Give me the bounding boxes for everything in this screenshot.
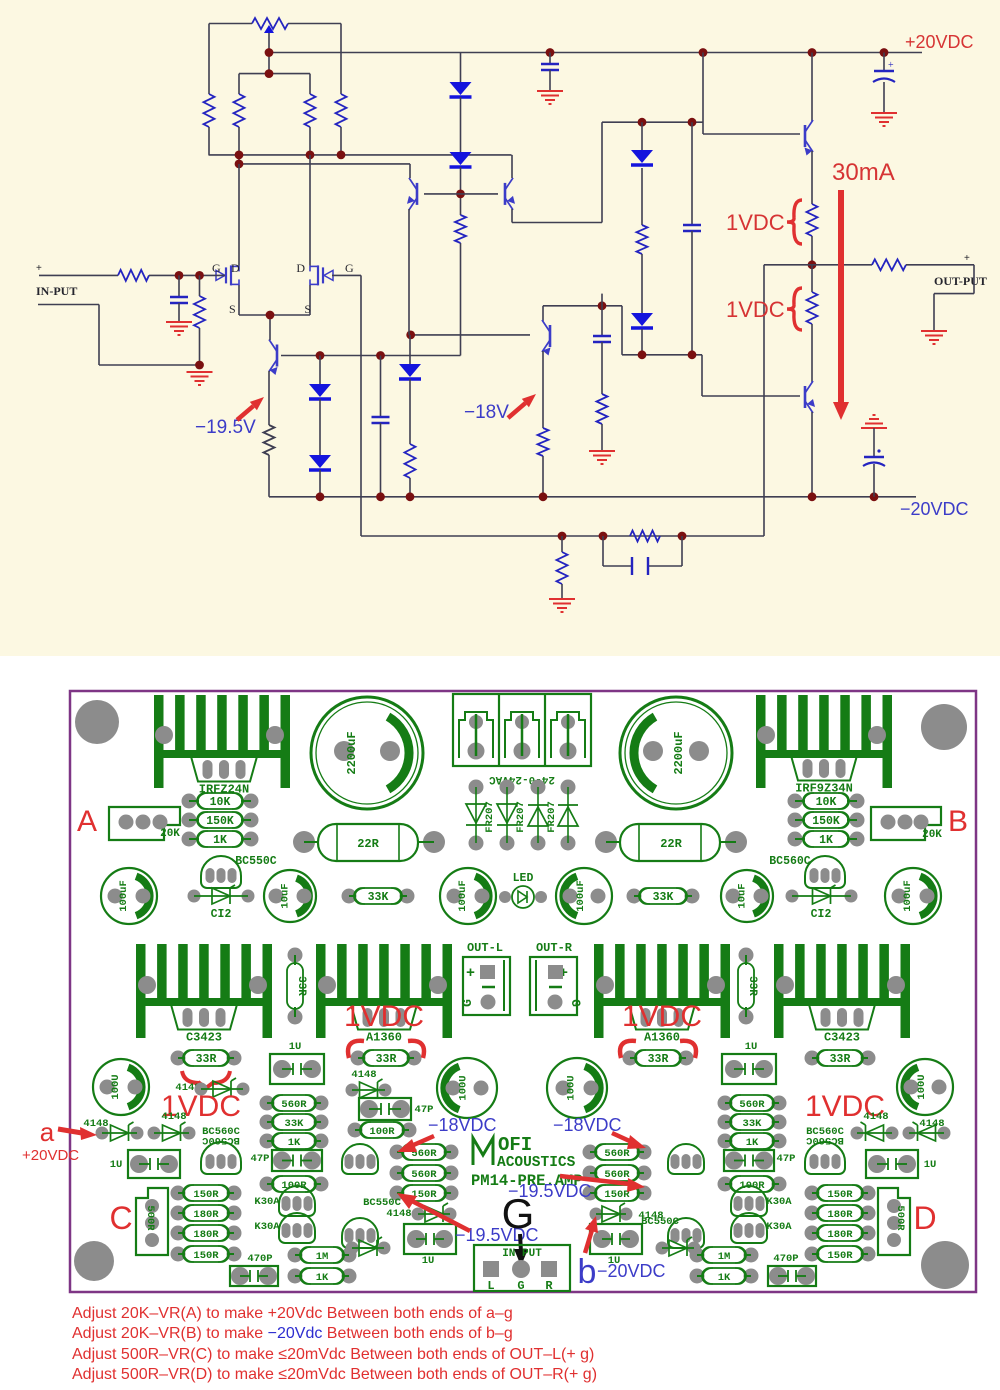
HS6 pads (776, 976, 794, 994)
node in2 (195, 271, 204, 280)
svg-text:a: a (40, 1117, 55, 1147)
+20VDC rail (269, 52, 922, 54)
svg-text:100uF: 100uF (575, 880, 587, 912)
mount hole TL (75, 700, 119, 744)
svg-text:33R: 33R (196, 1053, 217, 1066)
svg-text:b: b (578, 1253, 597, 1291)
svg-text:1M: 1M (718, 1251, 731, 1263)
svg-text:22R: 22R (660, 837, 682, 851)
resistor 33R a (171, 1051, 186, 1066)
transistor dome bR (668, 1144, 704, 1174)
resistor R9 (405, 444, 416, 478)
svg-text:180R: 180R (827, 1209, 853, 1221)
svg-text:24-0-24VAC: 24-0-24VAC (489, 773, 555, 785)
svg-text:33K: 33K (653, 891, 674, 904)
wire mirror (602, 121, 703, 123)
capacitor 100uF a (101, 868, 157, 924)
capacitor 47P f4 (724, 1150, 774, 1171)
svg-text:470P: 470P (773, 1253, 798, 1265)
resistor 560R i1 (390, 1145, 405, 1160)
node rail3 (699, 48, 708, 57)
svg-text:33R: 33R (376, 1053, 397, 1066)
resistor 560R f1 (718, 1096, 733, 1111)
capacitor 2200uF right (620, 697, 732, 809)
ground G1 (166, 322, 192, 335)
svg-text:47P: 47P (777, 1153, 796, 1165)
arrow -19.5VDC L (410, 1200, 470, 1231)
node v3 (598, 301, 607, 310)
red hooks b (348, 1041, 424, 1058)
node b4 (235, 160, 244, 169)
HS4 pads (318, 976, 336, 994)
svg-text:L: L (487, 1279, 494, 1293)
svg-text:G: G (568, 999, 583, 1007)
svg-text:1K: 1K (718, 1272, 731, 1284)
svg-text:1VDC: 1VDC (622, 1000, 702, 1033)
resistor R11 (538, 428, 549, 456)
transistor BC560C L2 (201, 1142, 241, 1174)
svg-text:180R: 180R (193, 1209, 219, 1221)
red arrow a (58, 1129, 82, 1133)
svg-text:S: S (229, 302, 236, 316)
capacitor 10uF R (721, 870, 773, 922)
node vb1 (316, 351, 325, 360)
svg-text:30mA: 30mA (832, 159, 895, 186)
wire bias right (702, 53, 704, 135)
ground G4 (871, 113, 897, 126)
capacitor 2200uF left (311, 697, 423, 809)
svg-text:2200uF: 2200uF (345, 731, 359, 774)
capacitor 100U b (437, 1058, 497, 1118)
svg-text:C: C (109, 1200, 132, 1236)
diode FR207 d (561, 780, 576, 795)
capacitor C4 (691, 122, 693, 224)
arrow -19.5VDC R (560, 1176, 630, 1184)
capacitor 10uF L (264, 870, 316, 922)
resistor R15 (264, 425, 275, 455)
resistor 1M R (690, 1248, 705, 1263)
svg-text:560R: 560R (604, 1148, 630, 1160)
node b3 (337, 151, 346, 160)
-20VDC rail (269, 496, 916, 498)
ground G6 (549, 599, 575, 612)
node v1 (638, 350, 647, 359)
resistor 1K R (788, 832, 803, 847)
resistor 1K L (182, 832, 197, 847)
svg-text:100uF: 100uF (902, 880, 914, 912)
diode 4148 a1 (195, 1083, 208, 1096)
svg-text:33R: 33R (746, 976, 758, 996)
mosfet M2 (324, 270, 333, 280)
mosfet M1 (216, 270, 225, 280)
heatsink HS4 (316, 944, 326, 1038)
resistor 560R j1 (583, 1145, 598, 1160)
svg-text:C3423: C3423 (186, 1031, 222, 1045)
resistor 560R j2 (583, 1166, 598, 1181)
svg-text:1K: 1K (819, 834, 833, 847)
resistor 1K f3 (718, 1134, 733, 1149)
svg-text:BC560C: BC560C (805, 1134, 844, 1146)
wire top (209, 23, 252, 25)
svg-text:500R: 500R (894, 1205, 906, 1231)
HS5 pads (596, 976, 614, 994)
capacitor C3 (883, 53, 885, 72)
svg-text:2200uF: 2200uF (672, 731, 686, 774)
resistor 560R i2 (390, 1166, 405, 1181)
svg-text:−20VDC: −20VDC (900, 499, 969, 519)
capacitor 100U d (897, 1059, 953, 1115)
svg-text:10K: 10K (210, 796, 231, 809)
capacitor C8 (861, 415, 887, 428)
transistor Q5 (811, 53, 813, 122)
arrow G black (520, 1234, 521, 1252)
svg-text:IRFZ24N: IRFZ24N (199, 783, 249, 797)
node S (266, 311, 275, 320)
arrow 30mA (838, 190, 844, 402)
capacitor C2 (549, 53, 551, 65)
svg-text:4148: 4148 (386, 1208, 411, 1220)
wire sources (239, 314, 310, 316)
heatsink HS3 (136, 944, 146, 1038)
svg-text:FR207: FR207 (546, 801, 558, 833)
diode 4148 bL3 (346, 1242, 359, 1255)
PCB board outline (70, 691, 976, 1292)
svg-text:1VDC: 1VDC (726, 297, 785, 322)
node n1 (316, 492, 325, 501)
resistor 150K R (788, 813, 803, 828)
node bias (265, 69, 274, 78)
node f2 (599, 532, 608, 541)
diode D1 (460, 53, 462, 83)
svg-text:10uF: 10uF (280, 883, 292, 908)
svg-text:20K: 20K (160, 828, 180, 840)
svg-text:G: G (212, 261, 221, 275)
svg-text:180R: 180R (827, 1229, 853, 1241)
capacitor 100uF d (885, 868, 941, 924)
terminal OUT-L (463, 957, 510, 1015)
wire bus1 (209, 154, 512, 156)
resistor 33K e2 (260, 1115, 275, 1130)
svg-text:560R: 560R (281, 1099, 307, 1111)
transistor C3423 R (809, 1005, 875, 1030)
resistor R14 (872, 259, 906, 270)
diode D5 (409, 335, 411, 364)
capacitor 1U bR (590, 1224, 642, 1254)
terminal IN-PUT (474, 1245, 570, 1291)
resistor R4c (340, 24, 342, 95)
svg-text:−19.5V: −19.5V (195, 417, 256, 438)
svg-text:100U: 100U (458, 1075, 470, 1100)
svg-text:33K: 33K (368, 891, 389, 904)
svg-text:150R: 150R (411, 1189, 437, 1201)
resistor R12 (630, 531, 660, 542)
wire gate bias (239, 73, 310, 75)
transistor BC560C R2 (805, 1142, 845, 1174)
diode 4148 r3 (903, 1127, 916, 1140)
svg-text:33K: 33K (743, 1118, 763, 1130)
svg-text:100uF: 100uF (457, 880, 469, 912)
wire vas top (543, 305, 622, 307)
resistor R4 (238, 74, 240, 94)
resistor 1K R2 (690, 1269, 705, 1284)
resistor 33R c (623, 1051, 638, 1066)
mount hole BL (74, 1241, 114, 1281)
svg-text:+: + (466, 965, 475, 982)
capacitor 1U bL (404, 1224, 456, 1254)
resistor 33K f2 (718, 1115, 733, 1130)
resistor 180R h2 (805, 1206, 820, 1221)
svg-text:D: D (913, 1200, 936, 1236)
svg-text:C3423: C3423 (824, 1031, 860, 1045)
HS1 pads (155, 726, 173, 744)
resistor 10K L (182, 794, 197, 809)
svg-text:10uF: 10uF (737, 883, 749, 908)
resistor 180R g2 (171, 1206, 186, 1221)
transistor Q1 (276, 345, 279, 367)
resistor R13 (561, 536, 563, 552)
resistor 22R L (293, 831, 315, 853)
pot 20K A (109, 807, 180, 840)
heatsink HS6 (774, 944, 784, 1038)
svg-text:1K: 1K (746, 1137, 759, 1149)
svg-text:22R: 22R (357, 837, 379, 851)
mount hole TR (921, 704, 967, 750)
transistor Q4 (542, 306, 544, 321)
diode CI2 R (786, 890, 799, 903)
transistor A1360 R (629, 1005, 695, 1030)
resistor 33R mid R (739, 948, 754, 963)
svg-text:IN PUT: IN PUT (502, 1248, 542, 1260)
resistor R8 (811, 265, 813, 292)
transistor IRF9Z34N (791, 756, 857, 781)
wire vbias (460, 243, 462, 356)
node rail5 (880, 48, 889, 57)
node vb2 (376, 351, 385, 360)
node b2 (306, 151, 315, 160)
svg-text:+: + (964, 253, 970, 264)
svg-text:OUT-PUT: OUT-PUT (934, 274, 987, 288)
svg-text:K30A: K30A (254, 1196, 280, 1208)
svg-text:−18VDC: −18VDC (553, 1115, 622, 1135)
capacitor 100U a (93, 1059, 149, 1115)
wire input low (38, 304, 99, 306)
node n6 (870, 492, 879, 501)
transistor IRFZ24N (191, 757, 257, 782)
terminal 24-0-24VAC (453, 694, 591, 766)
capacitor 47P b (359, 1098, 411, 1120)
resistor 1K e3 (260, 1134, 275, 1149)
svg-text:33R: 33R (830, 1053, 851, 1066)
wire outgnd (973, 265, 975, 294)
svg-text:1U: 1U (289, 1041, 302, 1053)
svg-text:1U: 1U (110, 1159, 123, 1171)
resistor R5 (460, 194, 462, 215)
wire fbline (361, 535, 764, 537)
wire q4base (411, 334, 530, 336)
node f3 (678, 532, 687, 541)
diode 4148 r2 (851, 1127, 864, 1140)
resistor R7 (807, 204, 818, 236)
capacitor C7 loop (602, 536, 604, 566)
resistor R4b (309, 74, 311, 94)
resistor 1K L2 (288, 1269, 303, 1284)
wire q6base (702, 395, 800, 397)
trimmer VR1 (252, 18, 288, 29)
svg-text:S: S (304, 302, 311, 316)
diode CI2 L (188, 890, 201, 903)
ground G7 (921, 331, 947, 344)
svg-text:+: + (36, 263, 42, 274)
transistor dome bR2 (668, 1218, 704, 1248)
node q4b (406, 331, 415, 340)
resistor R1 (118, 270, 149, 281)
node n3 (406, 492, 415, 501)
resistor 180R h3 (805, 1226, 820, 1241)
svg-text:150R: 150R (193, 1189, 219, 1201)
resistor R2 (199, 275, 201, 296)
svg-text:OFI: OFI (498, 1134, 532, 1156)
node rail2 (546, 48, 555, 57)
svg-text:10K: 10K (816, 796, 837, 809)
red hooks c (620, 1041, 696, 1058)
heatsink HS5 (594, 944, 604, 1038)
node rail4 (808, 48, 817, 57)
svg-text:LED: LED (513, 872, 534, 885)
wire m2 gate (332, 274, 361, 276)
svg-text:−18VDC: −18VDC (428, 1115, 497, 1135)
node n4 (539, 492, 548, 501)
diode D2 (450, 152, 472, 165)
resistor 150R j3 (583, 1186, 598, 1201)
HS3 pads (138, 976, 156, 994)
svg-text:−18V: −18V (464, 402, 509, 423)
capacitor 100uF c (556, 868, 612, 924)
brace a (787, 200, 802, 244)
resistor 150R h4 (805, 1247, 820, 1262)
svg-text:470P: 470P (247, 1253, 272, 1265)
svg-text:20K: 20K (922, 829, 942, 841)
node in3 (195, 361, 204, 370)
node out (808, 260, 817, 269)
svg-text:1U: 1U (422, 1255, 435, 1267)
diode D7 (309, 455, 331, 468)
resistor 150R g4 (171, 1247, 186, 1262)
svg-text:CI2: CI2 (211, 908, 232, 921)
terminal OUT-R (530, 957, 577, 1015)
wire cascode bases (424, 193, 498, 195)
logo MOFI (473, 1138, 493, 1165)
svg-text:100U: 100U (566, 1075, 578, 1100)
svg-text:500R: 500R (144, 1205, 156, 1231)
resistor 33K R (627, 889, 642, 904)
node rail1 (265, 48, 274, 57)
pot 500R D (878, 1188, 910, 1255)
svg-text:B: B (948, 805, 968, 838)
svg-text:100R: 100R (369, 1126, 395, 1138)
resistor 33K L (342, 889, 357, 904)
node n5 (808, 492, 817, 501)
node b1 (235, 151, 244, 160)
pot 500R C (136, 1188, 168, 1255)
svg-text:G: G (517, 1279, 524, 1293)
heatsink HS1 (154, 695, 164, 788)
transistor C3423 L (171, 1005, 237, 1030)
resistor 150R i3 (390, 1186, 405, 1201)
svg-text:33K: 33K (285, 1118, 305, 1130)
transistor K30A L2 (279, 1213, 315, 1243)
resistor 1M L (288, 1248, 303, 1263)
svg-text:150K: 150K (812, 815, 840, 828)
arrow b red (585, 1230, 592, 1253)
svg-text:150R: 150R (604, 1189, 630, 1201)
red smile a (182, 1071, 230, 1088)
arrow -18V (508, 403, 525, 418)
ground G5 (589, 451, 615, 464)
resistor 100R f5 (718, 1177, 733, 1192)
transistor dome bL2 (342, 1218, 378, 1248)
resistor 150K L (182, 813, 197, 828)
diode 4148 a2 (96, 1127, 109, 1140)
svg-text:FR207: FR207 (515, 801, 527, 833)
svg-text:BC560C: BC560C (769, 855, 811, 868)
svg-text:1K: 1K (316, 1272, 329, 1284)
svg-text:180R: 180R (193, 1229, 219, 1241)
HS2 pads (757, 726, 775, 744)
svg-text:BC560C: BC560C (201, 1134, 240, 1146)
ground G2 (187, 372, 213, 385)
pot 20K B (871, 807, 941, 840)
arrow -19.5V (237, 406, 253, 420)
brace b (787, 288, 802, 330)
svg-text:33R: 33R (648, 1053, 669, 1066)
transistor Q2 (416, 183, 419, 205)
resistor R3 (208, 24, 210, 95)
node m2 (688, 118, 697, 127)
svg-text:150R: 150R (827, 1250, 853, 1262)
capacitor C1 (178, 275, 180, 296)
arrow -18VDC R (612, 1133, 634, 1143)
resistor 180R g3 (171, 1226, 186, 1241)
svg-text:1U: 1U (924, 1159, 937, 1171)
svg-text:560R: 560R (411, 1169, 437, 1181)
wire output (764, 264, 872, 266)
svg-text:4148: 4148 (161, 1111, 186, 1123)
svg-text:150R: 150R (193, 1250, 219, 1262)
ground G3 (537, 91, 563, 104)
svg-text:G: G (502, 1190, 535, 1237)
arrow -18VDC L (409, 1136, 434, 1147)
resistor 100R e5 (260, 1177, 275, 1192)
svg-text:−20VDC: −20VDC (597, 1261, 666, 1281)
svg-text:560R: 560R (604, 1169, 630, 1181)
resistor R10 (597, 394, 608, 424)
transistor Q3 (504, 183, 507, 205)
transistor K30A L1 (279, 1186, 315, 1216)
svg-text:G: G (460, 999, 475, 1007)
resistor 560R e1 (260, 1096, 275, 1111)
svg-text:R: R (545, 1279, 553, 1293)
svg-text:A: A (77, 805, 97, 838)
capacitor C5 (601, 294, 603, 335)
wire bus2 (239, 163, 410, 165)
svg-text:560R: 560R (739, 1099, 765, 1111)
svg-text:150K: 150K (206, 815, 234, 828)
resistor 150R h1 (805, 1186, 820, 1201)
diode FR207 a (469, 780, 484, 795)
transistor K30A R1 (731, 1186, 767, 1216)
heatsink HS2 (756, 695, 766, 788)
svg-text:+: + (888, 60, 894, 71)
